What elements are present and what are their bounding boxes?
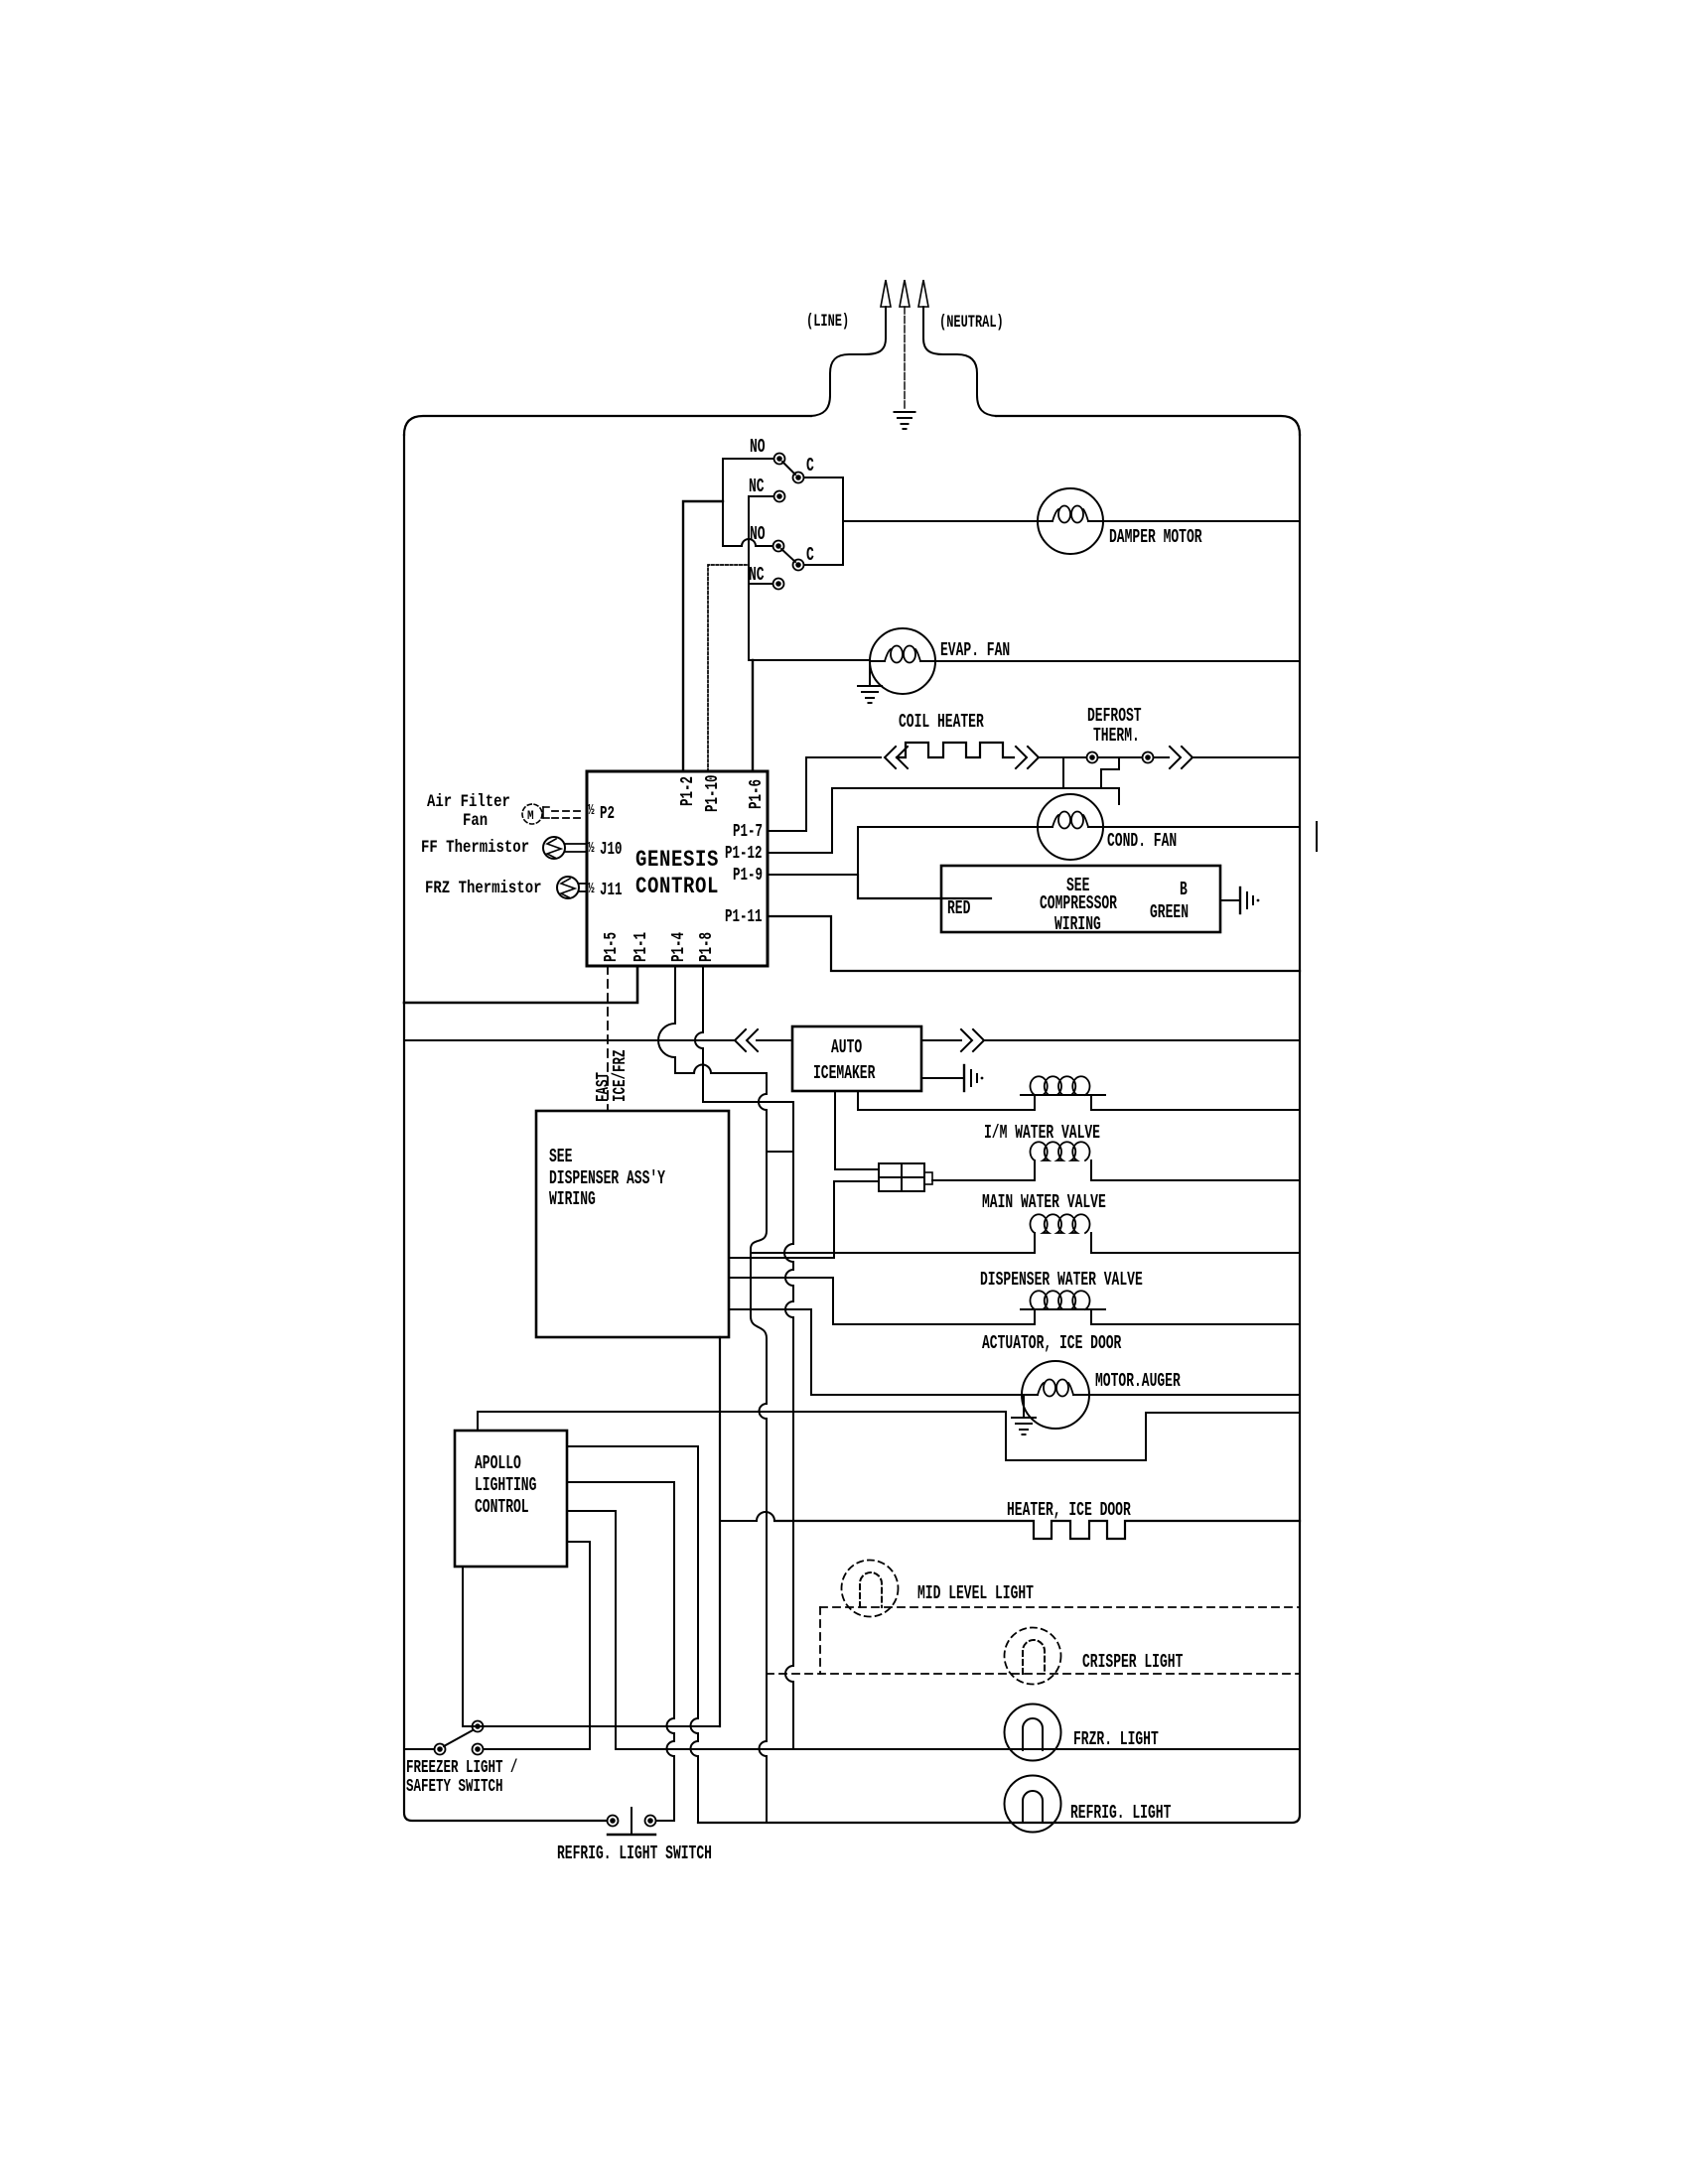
refrig light switch plunger: [631, 1808, 632, 1834]
svg-text:DISPENSER ASS'Y: DISPENSER ASS'Y: [549, 1167, 665, 1189]
svg-text:P1-9: P1-9: [733, 865, 763, 886]
wire apollo top net stepped to right border: [478, 1412, 1300, 1460]
svg-text:P1-4: P1-4: [668, 932, 689, 962]
svg-text:NC: NC: [749, 564, 765, 586]
switch contact: [473, 1744, 484, 1755]
switch contact: [774, 454, 785, 465]
wire dispenser valve feed: [751, 1252, 1035, 1254]
ground arrow: [900, 280, 910, 307]
svg-text:½: ½: [588, 840, 595, 857]
wire between therm contacts: [1098, 756, 1142, 758]
wire dispenser box stub 3 (motor auger riser): [729, 1308, 811, 1310]
cond fan motor M4: [1038, 794, 1103, 860]
svg-text:FRZR. LIGHT: FRZR. LIGHT: [1073, 1728, 1159, 1750]
wire line-lead into border: [811, 339, 886, 416]
wire icemaker bottom pin to connector: [835, 1091, 879, 1169]
wire I/M valve to right border: [1091, 1109, 1300, 1111]
wire neutral-lead into border: [923, 339, 996, 416]
svg-text:FF Thermistor: FF Thermistor: [421, 838, 529, 858]
wire dashed riser: [819, 1607, 821, 1674]
wire defrost row to right border: [1193, 756, 1300, 758]
wire lights feed vertical (P1-4 net): [766, 1073, 768, 1094]
svg-text:M: M: [527, 808, 534, 823]
wire coil heater to defrost therm: [1039, 756, 1086, 758]
wire outer border right + bottom (refrig light row): [698, 435, 1300, 1823]
wire lights feed vertical B (frzr light): [792, 1102, 794, 1244]
wire NO bracket: [723, 459, 773, 546]
switch contact: [608, 1816, 619, 1827]
svg-text:P1-12: P1-12: [725, 843, 762, 864]
switch contact: [774, 491, 785, 502]
svg-text:(NEUTRAL): (NEUTRAL): [939, 312, 1004, 333]
wire apollo w3 (frzr light row): [567, 1511, 616, 1749]
svg-text:½: ½: [588, 881, 595, 897]
svg-text:Fan: Fan: [463, 811, 488, 831]
wire NC2 stub: [749, 583, 772, 585]
switch contact: [773, 541, 784, 552]
wire dispenser box stub 2 (actuator riser): [729, 1277, 833, 1279]
connector chevrons left of coil heater: [885, 747, 896, 768]
wire therm to chevrons: [1154, 756, 1169, 758]
svg-text:GENESIS: GENESIS: [635, 849, 719, 874]
switch lever 1: [782, 462, 795, 475]
auto icemaker box: [792, 1026, 921, 1091]
svg-text:RED: RED: [947, 897, 970, 919]
svg-text:NO: NO: [750, 523, 766, 545]
heater ice door R2: [774, 1521, 1300, 1539]
wire outer border top-left: [404, 416, 811, 435]
svg-text:C: C: [806, 544, 814, 566]
I/M water valve L1: [1034, 1095, 1036, 1110]
connector chevrons right of coil heater: [1016, 747, 1027, 768]
svg-text:P1-7: P1-7: [733, 821, 763, 842]
svg-text:CONTROL: CONTROL: [475, 1496, 529, 1518]
svg-text:SAFETY SWITCH: SAFETY SWITCH: [406, 1776, 502, 1797]
ground at compressor: [1239, 887, 1241, 913]
svg-text:GREEN: GREEN: [1150, 901, 1189, 923]
wire P1-5 dashed (fast ice/frz): [607, 966, 609, 1111]
svg-text:NO: NO: [750, 436, 766, 458]
neutral arrow: [918, 280, 928, 307]
wire GREEN to ground: [1220, 899, 1240, 901]
svg-text:REFRIG. LIGHT: REFRIG. LIGHT: [1070, 1802, 1171, 1824]
svg-text:J11: J11: [600, 880, 622, 900]
svg-text:CONTROL: CONTROL: [635, 876, 719, 900]
wire outer border left + bottom-left: [404, 435, 607, 1821]
wire P1-8 with hop: [702, 966, 704, 1032]
svg-text:P2: P2: [600, 803, 615, 824]
ground at motor auger: [1023, 1395, 1025, 1418]
wire icemaker row to right border: [984, 1039, 1300, 1041]
svg-text:DEFROST: DEFROST: [1087, 705, 1142, 727]
svg-text:APOLLO: APOLLO: [475, 1452, 521, 1474]
damper motor M2: [1038, 488, 1103, 554]
switch contact: [473, 1721, 484, 1732]
evap fan motor M3: [870, 628, 935, 694]
svg-text:½: ½: [588, 802, 595, 819]
wire P1-9 riser: [768, 827, 1038, 875]
svg-text:J10: J10: [600, 839, 622, 860]
main water valve L2: [1034, 1160, 1036, 1180]
mid level light LP1: [842, 1561, 899, 1617]
switch contact: [773, 579, 784, 590]
defrost therm bimetal symbol: [1101, 757, 1119, 804]
ground at icemaker: [963, 1065, 965, 1091]
wire crisper dashed row: [767, 1673, 1300, 1675]
ground symbol at power entry: [895, 411, 915, 413]
svg-text:P1-6: P1-6: [746, 779, 767, 809]
svg-text:LIGHTING: LIGHTING: [475, 1474, 536, 1496]
inline connector to main water valve: [879, 1163, 924, 1191]
wire evap fan to right border: [935, 660, 1300, 662]
wire damper motor to right border: [1103, 520, 1300, 522]
svg-text:WIRING: WIRING: [549, 1188, 596, 1210]
coil heater R1: [897, 743, 1014, 757]
wire lighting bus vertical: [719, 1337, 721, 1726]
stray mark right of border: [1316, 822, 1318, 851]
switch contact: [793, 473, 804, 483]
line arrow: [881, 280, 891, 307]
svg-text:I/M WATER VALVE: I/M WATER VALVE: [984, 1122, 1100, 1144]
ground at evap fan: [869, 661, 871, 686]
wire icemaker second pin to I/M valve: [858, 1091, 1035, 1110]
wire pin P1-6: [752, 660, 754, 771]
motor auger M5: [1022, 1361, 1089, 1429]
wire actuator to right border: [1091, 1323, 1300, 1325]
svg-text:MID LEVEL LIGHT: MID LEVEL LIGHT: [917, 1582, 1034, 1604]
svg-text:CRISPER LIGHT: CRISPER LIGHT: [1082, 1651, 1183, 1673]
wire P1-7 to coil heater: [768, 757, 881, 831]
crisper light LP2: [1005, 1628, 1061, 1685]
dispenser assy wiring box: [536, 1111, 729, 1337]
svg-text:MOTOR.AUGER: MOTOR.AUGER: [1095, 1370, 1181, 1392]
wire C bracket: [804, 478, 843, 565]
genesis control box U1: [587, 771, 768, 966]
wire tap heater row to therm line: [1062, 757, 1064, 788]
wire C-bracket to damper motor: [843, 520, 1038, 522]
svg-text:COIL HEATER: COIL HEATER: [899, 711, 984, 733]
switch contact: [1087, 752, 1098, 763]
frzr light LP3: [1005, 1705, 1061, 1761]
wire left border to auto icemaker: [404, 1039, 735, 1041]
svg-text:AUTO: AUTO: [831, 1036, 862, 1058]
svg-text:B: B: [1180, 879, 1188, 900]
wire P1-9 down to compressor RED: [858, 875, 991, 898]
wire apollo top pin: [477, 1412, 479, 1431]
svg-text:HEATER, ICE DOOR: HEATER, ICE DOOR: [1007, 1499, 1131, 1521]
air filter fan motor M1: [522, 804, 542, 824]
svg-text:P1-5: P1-5: [601, 932, 622, 962]
wire safety switch bottom to w4: [484, 1748, 590, 1750]
svg-text:SEE: SEE: [549, 1146, 572, 1167]
wire stub joining feed verticals: [767, 1151, 793, 1153]
svg-text:P1-10: P1-10: [702, 775, 723, 812]
wire icemaker to ground: [921, 1077, 964, 1079]
svg-text:EVAP. FAN: EVAP. FAN: [940, 639, 1010, 661]
wire dispenser valve to right border: [1091, 1252, 1300, 1254]
svg-text:(LINE): (LINE): [806, 311, 849, 332]
switch contact: [435, 1744, 446, 1755]
svg-text:ICEMAKER: ICEMAKER: [813, 1062, 875, 1084]
wire P1-1 to left border: [404, 966, 637, 1003]
wire pin P1-10: [708, 565, 749, 771]
wire apollo bottom pin to safety switch: [462, 1567, 464, 1726]
compressor wiring box: [941, 866, 1220, 932]
svg-text:REFRIG. LIGHT SWITCH: REFRIG. LIGHT SWITCH: [557, 1843, 712, 1864]
svg-text:COND. FAN: COND. FAN: [1107, 830, 1177, 852]
wire cond fan to right border: [1103, 826, 1300, 828]
switch contact: [1143, 752, 1154, 763]
switch contact: [793, 560, 804, 571]
wire P1-4 with hop over icemaker line: [674, 966, 676, 1024]
svg-text:ICE/FRZ: ICE/FRZ: [610, 1050, 631, 1102]
svg-text:NC: NC: [749, 476, 765, 497]
svg-text:Air Filter: Air Filter: [427, 792, 510, 812]
wire icemaker to chevrons right: [921, 1039, 961, 1041]
wire P1-11 to right border: [768, 916, 1300, 971]
svg-text:P1-8: P1-8: [696, 932, 717, 962]
wire heater feed with hop: [720, 1520, 757, 1522]
svg-text:DAMPER MOTOR: DAMPER MOTOR: [1109, 526, 1202, 548]
wire mid level dashed row: [820, 1606, 1300, 1608]
svg-text:P1-1: P1-1: [631, 932, 651, 962]
svg-text:DISPENSER WATER VALVE: DISPENSER WATER VALVE: [980, 1269, 1143, 1291]
svg-text:COMPRESSOR: COMPRESSOR: [1040, 892, 1117, 914]
switch lever 2: [781, 549, 795, 562]
wire hop over NC line: [742, 539, 772, 546]
wire apollo w4 (safety switch): [484, 1542, 590, 1749]
svg-text:THERM.: THERM.: [1093, 725, 1140, 747]
svg-text:ACTUATOR, ICE DOOR: ACTUATOR, ICE DOOR: [982, 1332, 1121, 1354]
wire safety switch top row: [463, 1725, 720, 1727]
refrig light LP4: [1005, 1776, 1061, 1833]
actuator ice door L4: [1034, 1309, 1036, 1324]
wire outer border top-right: [996, 416, 1300, 435]
wire hop over P1-8: [694, 1065, 767, 1074]
wire frzr light row: [616, 1748, 1300, 1750]
svg-text:C: C: [806, 455, 814, 477]
wire NC bracket to evap fan: [749, 659, 870, 661]
apollo lighting control box: [455, 1431, 567, 1567]
svg-text:P1-11: P1-11: [725, 906, 762, 927]
svg-text:FRZ Thermistor: FRZ Thermistor: [425, 879, 541, 898]
svg-text:MAIN WATER VALVE: MAIN WATER VALVE: [982, 1191, 1106, 1213]
wire connector to main valve: [932, 1179, 1035, 1181]
svg-text:P1-2: P1-2: [677, 776, 698, 806]
wire NC bracket: [749, 496, 773, 660]
svg-text:WIRING: WIRING: [1054, 913, 1101, 935]
safety switch lever: [444, 1730, 473, 1746]
wire border to safety switch: [404, 1748, 434, 1750]
wire P2 dashed pins: [552, 810, 585, 812]
wire pin P1-2: [683, 501, 723, 771]
wire P1-12 to therm: [768, 788, 1101, 853]
wire main valve to right border: [1091, 1179, 1300, 1181]
wire motor auger to right border: [1089, 1394, 1300, 1396]
wire dispenser box stub 1 (connector riser): [729, 1257, 834, 1259]
wire apollo w2 (refrig switch): [567, 1482, 674, 1718]
FRZ thermistor RT2: [557, 877, 579, 898]
wire switch to riser: [656, 1820, 674, 1822]
FF thermistor RT1: [543, 837, 565, 859]
dispenser water valve L3: [1034, 1233, 1036, 1253]
wire apollo w1 (refrig light feed): [567, 1446, 698, 1718]
switch contact: [645, 1816, 656, 1827]
